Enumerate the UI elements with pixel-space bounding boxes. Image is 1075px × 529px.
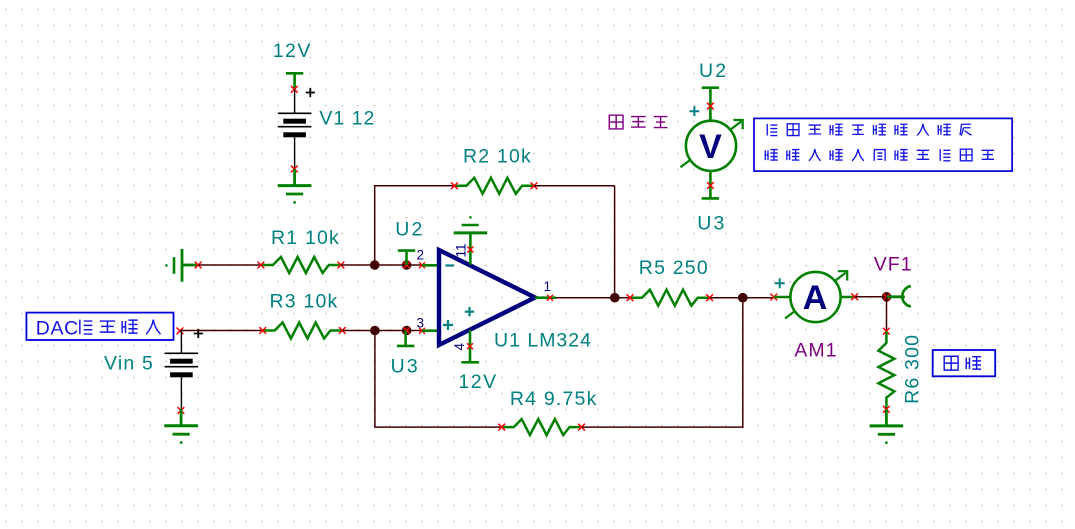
ammeter AM1	[785, 271, 847, 322]
junction node U2 terminal	[402, 260, 412, 270]
svg-text:V1 12: V1 12	[319, 108, 375, 130]
wire R1 to opamp pin2	[341, 264, 422, 266]
pin x-mark R3 left	[259, 327, 266, 334]
terminal voltmeter top	[702, 88, 719, 121]
input connector (rotated ground)	[165, 249, 198, 282]
resistor R5	[630, 290, 710, 306]
flipped ground above pin 11	[454, 216, 488, 265]
pin x-mark V1 +	[291, 86, 298, 93]
wire feedback right vertical	[614, 186, 616, 298]
pin x-mark on U2 junction	[404, 262, 410, 268]
svg-text:12V: 12V	[458, 371, 497, 393]
plus sign V1	[306, 88, 315, 97]
wire Vin bottom pin	[180, 377, 182, 410]
wire R3 to opamp pin3	[342, 330, 422, 332]
svg-text:4: 4	[452, 343, 467, 351]
wire R4 loop bottom left	[374, 426, 502, 428]
pin x-mark pin 1	[547, 295, 553, 301]
pin x-mark R6 bottom	[883, 406, 890, 413]
pin x-mark R6 top	[883, 328, 890, 335]
op-amp minus sign	[446, 264, 455, 266]
svg-text:R1 10k: R1 10k	[271, 227, 340, 249]
plus sign voltmeter	[690, 106, 700, 116]
wire pin3 lead	[422, 329, 439, 332]
pin x-mark on VF1 junction	[884, 294, 890, 300]
op-amp plus sign (pin3)	[443, 320, 453, 330]
svg-text:DAC: DAC	[36, 317, 79, 339]
terminal U3	[397, 331, 414, 346]
svg-text:U3: U3	[697, 213, 726, 235]
junction node R4 return	[738, 293, 748, 303]
junction node feedback/pin2	[370, 260, 380, 270]
pin x-mark voltmeter -	[707, 182, 714, 189]
pin x-mark ammeter -	[851, 293, 858, 300]
svg-text:R6 300: R6 300	[902, 334, 924, 404]
wire R5 to ammeter	[710, 297, 774, 299]
svg-text:AM1: AM1	[794, 340, 837, 362]
terminal voltmeter bottom	[702, 171, 719, 199]
svg-text:R4 9.75k: R4 9.75k	[510, 388, 598, 410]
junction node U3 terminal	[402, 326, 412, 336]
pin x-mark input connector	[195, 262, 202, 269]
wire DAC node to R3	[180, 330, 263, 332]
svg-text:U2: U2	[395, 219, 424, 241]
pin x-mark pin 4	[467, 343, 473, 349]
pin x-mark opamp pin3	[419, 328, 425, 334]
wire ammeter right lead	[840, 296, 857, 299]
svg-text:V: V	[699, 128, 722, 166]
pin x-mark R2 left	[451, 182, 458, 189]
pin x-mark ammeter +	[770, 294, 777, 301]
annotation box load	[933, 350, 996, 376]
wire V1 top pin	[294, 89, 296, 113]
pin x-mark R1 right	[338, 262, 345, 269]
power terminal pin 4	[461, 330, 479, 363]
svg-text:U3: U3	[391, 355, 420, 377]
svg-text:2: 2	[417, 248, 425, 263]
wire feedback top left	[374, 185, 454, 187]
wire VF1 node to R6	[886, 297, 888, 331]
svg-text:R3 10k: R3 10k	[270, 291, 339, 313]
pin x-mark R5 right	[706, 294, 713, 301]
connector VF1 arc	[902, 286, 911, 307]
ground under V1	[278, 169, 312, 204]
ground under R6	[870, 409, 904, 444]
battery V1	[278, 113, 312, 137]
pin x-mark opamp pin2	[419, 262, 425, 268]
resistor R1	[261, 257, 341, 273]
svg-text:12V: 12V	[273, 40, 312, 62]
svg-text:U2: U2	[699, 60, 728, 82]
junction node R4 loop/pin3	[370, 326, 380, 336]
annotation box offset-voltage note	[754, 118, 1012, 171]
pin x-mark Vin +	[177, 328, 184, 335]
pin x-mark V1 -	[291, 166, 298, 173]
terminal U2	[398, 251, 415, 265]
pin x-mark R4 right	[578, 424, 585, 431]
plus sign Vin	[194, 329, 203, 338]
pin x-mark on U3 junction	[404, 328, 410, 334]
junction node output/feedback	[610, 293, 620, 303]
wire R4 loop bottom right	[582, 426, 744, 428]
ground under Vin	[164, 409, 198, 444]
wire Vin top pin	[180, 331, 182, 353]
pin x-mark pin 11	[467, 247, 473, 253]
pin x-mark R1 left	[258, 262, 265, 269]
op-amp plus sign (center)	[465, 307, 474, 316]
voltmeter U2-U3	[681, 120, 743, 171]
wire output to R5	[556, 297, 630, 299]
svg-text:Vin 5: Vin 5	[104, 352, 154, 374]
wire ammeter to VF1 node	[855, 296, 887, 298]
wire feedback top right	[534, 185, 615, 187]
svg-text:R5 250: R5 250	[639, 257, 709, 279]
wire V1 bottom pin	[294, 137, 296, 169]
svg-text:11: 11	[454, 243, 469, 257]
svg-text:VF1: VF1	[874, 254, 913, 276]
op-amp U1 triangle	[439, 250, 535, 345]
wire input to R1	[198, 264, 261, 266]
wire VF1 lead	[887, 295, 905, 298]
resistor R6	[878, 331, 894, 409]
battery Vin	[165, 353, 199, 377]
plus sign ammeter	[775, 278, 785, 288]
svg-text:1: 1	[544, 279, 552, 294]
wire R4 loop left vertical	[374, 331, 376, 428]
resistor R4	[502, 419, 582, 435]
wire ammeter left lead	[774, 296, 791, 299]
annotation box DAC signal input	[26, 313, 173, 340]
pin x-mark R2 right	[531, 182, 538, 189]
junction node VF1	[882, 292, 892, 302]
pin x-mark R5 left	[627, 294, 634, 301]
pin x-mark R4 left	[498, 424, 505, 431]
resistor R3	[263, 323, 343, 339]
wire output lead	[535, 296, 556, 299]
svg-text:A: A	[803, 279, 828, 317]
pin x-mark voltmeter +	[707, 103, 714, 110]
label voltmeter (Chinese)	[609, 115, 667, 129]
wire pin2 lead	[422, 264, 439, 267]
resistor R2	[454, 178, 534, 194]
svg-text:R2 10k: R2 10k	[463, 146, 532, 168]
wire feedback left vertical	[374, 186, 376, 265]
pin x-mark Vin -	[178, 407, 185, 414]
pin x-mark R3 right	[339, 327, 346, 334]
svg-text:U1 LM324: U1 LM324	[494, 330, 592, 352]
wire R4 loop right vertical	[742, 298, 744, 428]
power terminal of V1	[286, 73, 303, 89]
